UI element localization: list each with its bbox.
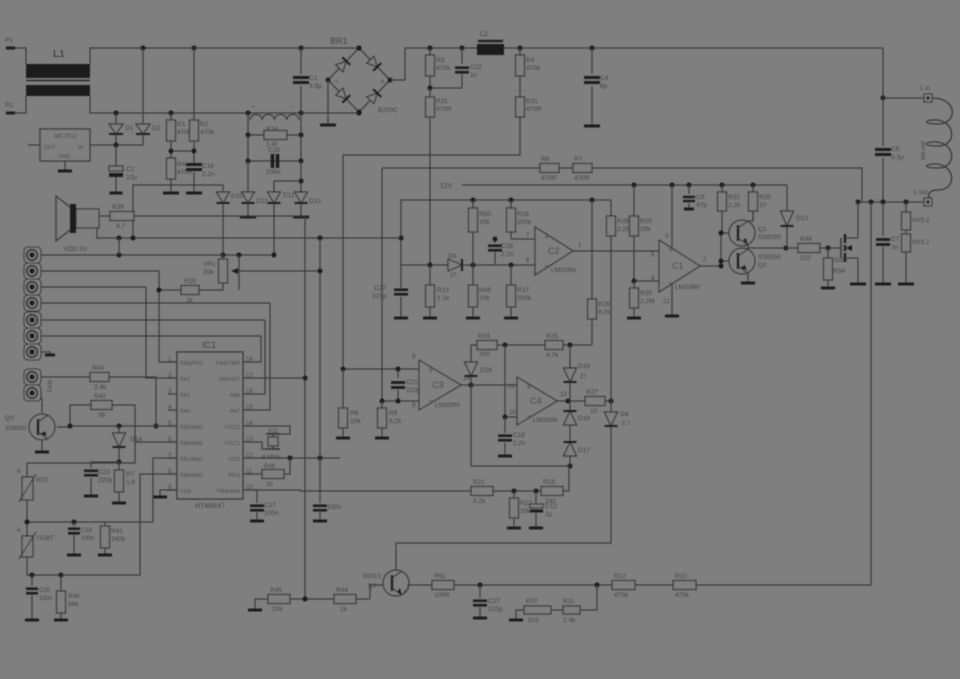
wire [635, 584, 673, 586]
svg-text:10: 10 [759, 202, 767, 209]
svg-text:10k: 10k [350, 418, 361, 425]
svg-text:−: − [526, 411, 531, 421]
svg-text:R2: R2 [200, 121, 209, 128]
svg-text:PB2/AN2: PB2/AN2 [180, 425, 203, 431]
capacitor C1 3.3u [300, 47, 302, 74]
svg-text:C1: C1 [309, 75, 318, 82]
svg-text:470R: 470R [574, 175, 590, 182]
ground at bridge [327, 80, 329, 125]
svg-text:R48: R48 [800, 236, 812, 243]
svg-text:10: 10 [509, 410, 516, 416]
wire key lines [41, 254, 223, 256]
resistor R46 20 [252, 473, 262, 475]
crystal X11 8MHz [252, 426, 290, 434]
varistor HVS1 [905, 230, 907, 234]
bridge diode bottom-left [335, 88, 350, 103]
svg-text:2.2n: 2.2n [501, 251, 514, 258]
svg-text:R31: R31 [526, 98, 538, 105]
wire C4 plus from C3 out [471, 384, 517, 386]
svg-text:VDD 5V: VDD 5V [64, 246, 88, 253]
svg-text:C12: C12 [545, 503, 557, 510]
svg-text:PA6: PA6 [230, 393, 240, 399]
op-amp C1 LM339N [659, 240, 700, 292]
svg-text:PA1: PA1 [180, 393, 190, 399]
svg-text:−: − [334, 77, 339, 86]
svg-text:C27: C27 [374, 285, 386, 292]
svg-text:8.2k: 8.2k [473, 498, 486, 505]
svg-text:R40: R40 [68, 593, 80, 600]
svg-text:D14: D14 [130, 436, 142, 443]
resistor R48 22 [786, 247, 798, 249]
svg-text:C15: C15 [268, 147, 280, 154]
svg-text:2.4k: 2.4k [94, 384, 107, 391]
svg-text:3.3μ: 3.3μ [891, 154, 904, 161]
trimmer VR1 20k [222, 255, 224, 259]
svg-text:3.3μ: 3.3μ [309, 83, 322, 90]
wire [493, 490, 541, 492]
svg-text:R16: R16 [517, 211, 529, 218]
capacitor C27 220p [400, 265, 402, 288]
resistor R8 470R [540, 164, 559, 173]
wire C1 power [671, 185, 673, 247]
bridge diode top-left [335, 57, 350, 72]
svg-text:R45: R45 [270, 587, 282, 594]
capacitor C22 1n [461, 48, 463, 64]
wire minus input [401, 264, 448, 266]
wire emitters [748, 248, 786, 249]
svg-text:HVS.2: HVS.2 [912, 218, 930, 224]
svg-text:11: 11 [508, 384, 515, 390]
svg-text:PA7: PA7 [230, 409, 240, 415]
resistor R42 36 [91, 401, 112, 410]
transistor Q1 SS8050 [729, 220, 755, 246]
diode D6 [448, 259, 462, 271]
svg-text:470R: 470R [541, 175, 557, 182]
svg-text:D17: D17 [578, 447, 590, 454]
svg-text:L2: L2 [480, 31, 488, 38]
IGBT Q4 [840, 238, 842, 258]
svg-text:470k: 470k [436, 65, 451, 72]
capacitor C6 3.3u resonant top [882, 98, 884, 146]
svg-text:470R: 470R [436, 106, 452, 113]
svg-text:C16: C16 [202, 163, 214, 170]
svg-text:OSC2: OSC2 [225, 425, 240, 431]
svg-text:−: − [289, 104, 293, 111]
wire divider node [170, 141, 172, 158]
svg-text:P1: P1 [5, 37, 13, 44]
svg-text:R6: R6 [350, 410, 359, 417]
wire [290, 598, 334, 600]
wire [580, 585, 597, 610]
capacitor C28 2.2n [494, 239, 496, 243]
wire current sense [382, 167, 540, 169]
wire 5V rail [97, 237, 401, 239]
svg-text:R54: R54 [833, 268, 845, 275]
svg-text:20k: 20k [203, 269, 214, 276]
resistor R1 470k [170, 113, 172, 120]
wire sense tap down [381, 168, 383, 401]
svg-text:C23: C23 [98, 469, 110, 476]
svg-text:LM339N: LM339N [533, 417, 558, 424]
svg-text:27: 27 [450, 273, 457, 279]
regulator U2 7812 [40, 129, 90, 161]
diode D4 [610, 401, 612, 412]
svg-text:D1: D1 [125, 125, 134, 132]
svg-text:R46: R46 [264, 464, 276, 470]
svg-text:HT46R47: HT46R47 [195, 503, 225, 510]
svg-text:BR1: BR1 [330, 36, 348, 46]
svg-text:100R: 100R [434, 592, 450, 599]
svg-text:PA2: PA2 [180, 377, 190, 383]
resistor R51 100R [432, 581, 454, 590]
svg-text:R4: R4 [177, 161, 186, 168]
wire base link [721, 232, 729, 234]
wire D10 top [133, 185, 223, 238]
capacitor C17 100n [252, 489, 257, 491]
wire Q7 collector [395, 566, 397, 570]
wire to IC pin7 [61, 474, 177, 575]
svg-text:20k: 20k [479, 295, 490, 302]
resistor R54 [827, 248, 829, 258]
svg-text:1.8: 1.8 [126, 479, 135, 486]
svg-text:R1: R1 [177, 121, 186, 128]
wire [430, 76, 462, 88]
svg-text:100n: 100n [264, 510, 279, 517]
capacitor C13 100n [319, 458, 321, 503]
resistor R3 470k [429, 48, 431, 55]
svg-text:36: 36 [98, 412, 106, 419]
diode D13b [786, 185, 788, 211]
svg-text:C9: C9 [696, 194, 705, 201]
resistor R37 510 [516, 610, 524, 620]
svg-text:R29: R29 [640, 218, 652, 225]
svg-text:C7: C7 [891, 236, 900, 243]
resistor R22 20k [513, 491, 515, 498]
resistor R50 20k [472, 200, 474, 208]
diode D19 [569, 345, 571, 368]
svg-text:D19: D19 [578, 363, 590, 370]
svg-text:R26: R26 [598, 301, 610, 308]
svg-text:VDD: VDD [228, 457, 240, 463]
svg-text:R7: R7 [126, 471, 135, 478]
svg-text:R12: R12 [614, 573, 626, 580]
svg-text:SS8550: SS8550 [5, 426, 27, 432]
svg-text:Q7: Q7 [368, 583, 377, 590]
svg-text:R8: R8 [541, 156, 550, 163]
svg-text:R44: R44 [92, 365, 104, 372]
svg-text:P2: P2 [5, 102, 13, 109]
capacitor C12 1p [535, 491, 537, 503]
resistor R7b 1.8 [118, 462, 120, 470]
wire [497, 344, 545, 346]
speaker SP1 [76, 209, 99, 228]
wire thermistor node [27, 500, 111, 522]
svg-text:PB6/AN6: PB6/AN6 [180, 441, 203, 447]
op-amp C2 LM339N [535, 227, 573, 275]
thermistor TIGBT [26, 522, 28, 536]
capacitor C9 47p [688, 185, 690, 194]
capacitor C16 2.2n [186, 163, 202, 166]
resistor R7 470R [573, 164, 592, 173]
resistor R16 200k [510, 200, 512, 208]
svg-text:10: 10 [590, 408, 598, 415]
wire R24 node to minus [505, 345, 517, 417]
svg-text:OUT: OUT [44, 145, 56, 151]
svg-text:R23: R23 [543, 479, 555, 486]
svg-text:100n: 100n [39, 596, 52, 602]
thermistor ROT [26, 470, 28, 477]
svg-text:Ind.coil: Ind.coil [921, 141, 927, 160]
svg-text:2.2n: 2.2n [513, 440, 526, 447]
wire bridge + output [390, 48, 883, 80]
svg-text:470k: 470k [614, 592, 629, 599]
svg-text:13: 13 [560, 392, 567, 398]
wire [15, 48, 26, 64]
svg-text:~: ~ [251, 104, 255, 111]
wire VSS ground [160, 490, 177, 497]
resistor R12 470k [612, 581, 635, 590]
resistor R29 20k [633, 185, 635, 216]
svg-text:C19: C19 [81, 528, 93, 534]
svg-text:R11: R11 [563, 598, 575, 605]
wire [454, 584, 612, 586]
svg-text:470k: 470k [200, 129, 215, 136]
diode D16 [470, 345, 472, 362]
svg-text:222: 222 [800, 255, 811, 262]
svg-text:330: 330 [479, 351, 490, 358]
svg-text:27: 27 [580, 374, 586, 380]
svg-text:RES: RES [228, 473, 240, 479]
wire rail seg2 [401, 199, 611, 201]
svg-text:470k: 470k [526, 65, 541, 72]
capacitor C24 220p [479, 585, 481, 598]
svg-text:+: + [428, 365, 433, 375]
capacitor C23 220p [91, 462, 119, 468]
svg-text:R17: R17 [517, 287, 529, 294]
svg-text:C21: C21 [406, 379, 418, 386]
svg-text:B250C: B250C [378, 107, 398, 114]
svg-text:200k: 200k [517, 295, 532, 302]
svg-text:HVS.1: HVS.1 [912, 240, 930, 246]
svg-text:R24: R24 [478, 333, 490, 340]
svg-text:D10: D10 [231, 193, 243, 200]
wire feedback to L-out [696, 584, 871, 586]
svg-text:C2: C2 [548, 246, 560, 256]
svg-text:R44: R44 [336, 587, 348, 594]
svg-text:PA4/TMR: PA4/TMR [216, 361, 240, 367]
svg-text:Q1: Q1 [758, 226, 767, 233]
svg-text:+: + [526, 382, 531, 392]
capacitor C19 100n [73, 522, 75, 526]
svg-text:20k: 20k [520, 508, 531, 515]
svg-text:L-out: L-out [914, 190, 928, 196]
resistor R39 4.7 [99, 215, 110, 217]
wire [15, 96, 26, 113]
resistor R44b 1k [334, 595, 356, 604]
svg-text:100n: 100n [327, 504, 342, 511]
resistor R26 8.2k [591, 200, 593, 299]
resistor R41 240k [104, 522, 106, 526]
resistor R11 2.4k [551, 609, 563, 611]
svg-text:L1: L1 [53, 49, 65, 60]
resistor R17 200k [510, 265, 512, 285]
svg-text:1μ: 1μ [545, 511, 553, 518]
svg-text:R3: R3 [436, 57, 445, 64]
diode D10 [222, 186, 224, 192]
svg-text:D13: D13 [309, 198, 321, 205]
resistor R31 470R [426, 97, 435, 117]
svg-text:SS8050: SS8050 [758, 234, 782, 241]
svg-text:4.7k: 4.7k [546, 352, 559, 359]
diode D1 [115, 113, 117, 124]
svg-text:C18: C18 [513, 432, 525, 439]
svg-text:2.7: 2.7 [622, 421, 630, 427]
svg-text:220p: 220p [372, 293, 387, 300]
wire Q3 base [57, 426, 70, 428]
wire C3 plus [343, 368, 419, 370]
svg-text:LM339N: LM339N [675, 284, 700, 291]
svg-text:R41: R41 [111, 528, 123, 535]
svg-text:220p: 220p [98, 477, 113, 484]
terminal L-in [881, 96, 886, 101]
induction coil [927, 98, 953, 202]
svg-text:R32: R32 [728, 194, 740, 201]
svg-text:R37: R37 [526, 598, 538, 605]
resistor R13 1.1k [426, 285, 435, 307]
svg-text:R4: R4 [526, 57, 535, 64]
resistor R23 240 [541, 487, 563, 496]
svg-text:20k: 20k [272, 606, 283, 613]
svg-text:D18: D18 [578, 415, 590, 422]
svg-text:VSS: VSS [180, 489, 191, 495]
diode D2 [142, 48, 144, 124]
connector header [24, 247, 41, 263]
wire 5V node [222, 203, 224, 255]
wire [96, 228, 98, 239]
wire [559, 167, 573, 169]
svg-text:1k: 1k [186, 297, 194, 304]
svg-text:R49: R49 [479, 287, 491, 294]
diode D17 [569, 425, 571, 442]
svg-text:2.4k: 2.4k [563, 617, 576, 624]
resistor R9 8.2k [381, 401, 383, 408]
capacitor C7 1n [882, 202, 884, 236]
svg-text:R30: R30 [640, 290, 652, 297]
wire mains sense [343, 117, 520, 369]
resistor R6 10k [342, 369, 344, 408]
wire C3 minus [382, 400, 419, 402]
resistor R44 2.4k [63, 376, 90, 378]
resistor R32 2.2k [721, 185, 723, 192]
svg-text:47p: 47p [696, 202, 707, 209]
svg-text:C4: C4 [600, 75, 609, 82]
wire VDD column [319, 238, 321, 458]
resistor R2 470k [193, 47, 195, 120]
wire gate [820, 247, 841, 249]
transistor Q2 SS8550 [729, 248, 755, 274]
svg-text:+: + [544, 232, 549, 242]
resistor R27 10 [585, 397, 605, 406]
wire C4 out [557, 400, 585, 402]
svg-text:2.2n: 2.2n [202, 171, 215, 178]
svg-text:2.2M: 2.2M [640, 298, 654, 305]
svg-text:−: − [544, 261, 549, 271]
capacitor C4 8p [591, 48, 593, 74]
diode D14 [118, 426, 120, 433]
wire [115, 134, 117, 145]
svg-text:220p: 220p [488, 606, 503, 613]
wire R31 sense down [429, 117, 431, 265]
svg-text:12V: 12V [440, 183, 453, 190]
svg-text:C6: C6 [891, 146, 900, 153]
svg-text:D13: D13 [796, 215, 808, 222]
svg-text:C17: C17 [264, 502, 276, 509]
svg-text:IC1: IC1 [202, 340, 216, 350]
resistor R24 330 [471, 344, 477, 346]
svg-text:C1: C1 [672, 261, 684, 271]
svg-text:MC7812: MC7812 [55, 134, 78, 140]
wire [247, 161, 249, 191]
svg-text:240k: 240k [111, 536, 126, 543]
svg-text:R19: R19 [184, 278, 196, 285]
svg-text:510: 510 [528, 617, 539, 624]
transistor Q7 S9013 [383, 570, 409, 596]
svg-text:S9013: S9013 [362, 573, 381, 580]
svg-text:C3: C3 [432, 380, 444, 390]
wire top bus [90, 48, 359, 64]
svg-text:1n: 1n [891, 244, 899, 251]
resistor R45 20k [255, 599, 268, 610]
wire Q3 emitter gnd [41, 441, 43, 452]
svg-text:IN: IN [78, 145, 84, 151]
varistor HVS2 [905, 202, 907, 212]
resistor R33 10 [752, 185, 754, 192]
wire PB4 to R21 [252, 490, 471, 491]
svg-text:100n: 100n [266, 169, 281, 176]
svg-text:C28: C28 [501, 243, 513, 250]
svg-text:8.2k: 8.2k [598, 309, 611, 316]
svg-text:R13: R13 [437, 287, 449, 294]
wire to Q7 base [356, 598, 370, 600]
wire hook D11 [274, 181, 301, 192]
wire [27, 557, 61, 575]
svg-text:VR1: VR1 [203, 261, 216, 268]
wire [238, 255, 240, 290]
svg-text:R51: R51 [434, 573, 446, 580]
diode D12 [242, 192, 255, 203]
svg-text:D4: D4 [620, 411, 629, 418]
svg-text:20k: 20k [479, 219, 490, 226]
capacitor C2 10u [115, 145, 117, 166]
capacitor C21 220p [397, 369, 399, 378]
svg-text:470R: 470R [526, 106, 542, 113]
connector FAN [24, 369, 41, 385]
wire plus input [472, 232, 474, 265]
svg-text:200k: 200k [517, 219, 532, 226]
wire pan-detect vertical [610, 236, 612, 401]
svg-text:1k: 1k [340, 606, 348, 613]
resistor R21 8.2k [471, 487, 493, 496]
svg-text:D2: D2 [152, 125, 161, 132]
svg-text:PA0: PA0 [180, 409, 190, 415]
terminal L-out [924, 198, 932, 206]
svg-text:C4: C4 [530, 396, 542, 406]
svg-text:L-in: L-in [920, 86, 930, 92]
wire 5V to ref [400, 200, 402, 265]
svg-text:C20: C20 [39, 588, 51, 594]
svg-text:R25: R25 [546, 333, 558, 340]
resistor R4b 470k [519, 48, 521, 55]
